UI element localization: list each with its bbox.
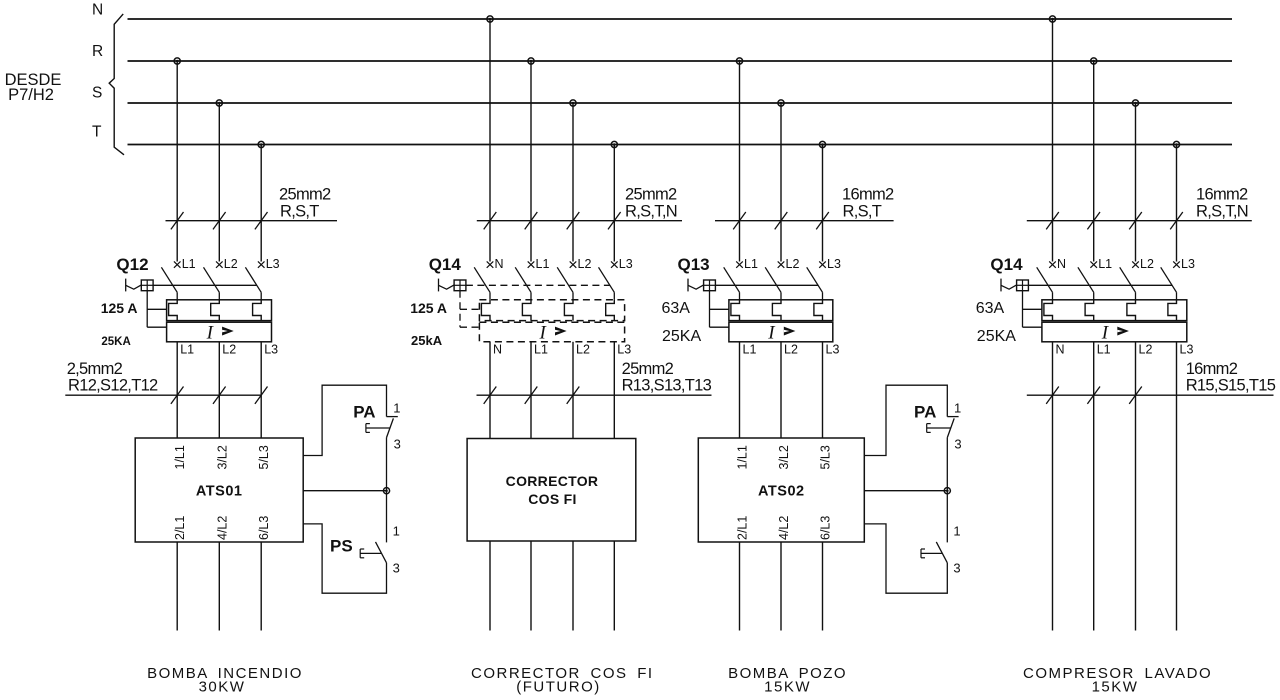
svg-text:1: 1 — [393, 400, 400, 415]
svg-text:16mm2: 16mm2 — [1196, 186, 1248, 204]
wire: bus R tap to Q14 (corrector) (x=531) — [530, 61, 532, 262]
Q14 trip bar — [466, 284, 610, 286]
svg-text:Q14: Q14 — [990, 255, 1023, 274]
wire: upper contact to node — [386, 438, 388, 491]
cable designation 2,5mm2 R12,S12,T12 (Q12 control) — [65, 360, 267, 404]
svg-text:2/L1: 2/L1 — [173, 516, 187, 540]
Q13 pole L1: terminal, blade, thermal element — [736, 261, 743, 267]
svg-text:ATS01: ATS01 — [196, 484, 243, 500]
svg-text:R: R — [92, 43, 103, 60]
Q14 operating handle — [438, 279, 440, 292]
Q14 pole L2: terminal, blade, thermal element — [570, 261, 577, 267]
svg-text:25mm2: 25mm2 — [622, 360, 674, 378]
svg-text:6/L3: 6/L3 — [819, 516, 833, 540]
wire: bus S tap to Q12 (x=219) — [218, 103, 220, 262]
cable designation 25mm2 R13,S13,T13 — [477, 360, 712, 404]
svg-text:5/L3: 5/L3 — [819, 445, 833, 469]
Q13 pole L2: terminal, blade, thermal element — [778, 261, 785, 267]
svg-text:R,S,T,N: R,S,T,N — [1196, 203, 1248, 221]
svg-text:3: 3 — [953, 561, 960, 576]
junction: bus N / Q14 (corrector) — [487, 16, 493, 22]
svg-text:L3: L3 — [617, 343, 631, 357]
label DESDE P7/H2 (incoming feeder) — [5, 71, 62, 104]
wire: Q12 output to ATS01 (x=177) — [176, 342, 178, 438]
svg-text:(FUTURO): (FUTURO) — [516, 679, 600, 696]
wire: corrector box output (x=614) — [613, 541, 615, 631]
svg-text:L3: L3 — [1180, 343, 1194, 357]
svg-text:L3: L3 — [826, 343, 840, 357]
wire: bus T tap to Q14 (corrector) (x=614) — [613, 145, 615, 262]
wire: Q14 output to corrector box (x=490) — [489, 342, 491, 439]
junction: bus S / Q12 — [216, 100, 222, 106]
Q12 pole L2: terminal, blade, thermal element — [216, 261, 223, 267]
wire: bus T tap to Q14 (compresor) (x=1176) — [1176, 145, 1178, 262]
svg-text:L3: L3 — [1181, 257, 1195, 271]
wire: ATS02 output (x=781) — [780, 542, 782, 631]
wire: ATS02 box to node — [864, 490, 947, 492]
Q14 operating handle — [1000, 279, 1002, 292]
Q14 thermal unit box — [479, 300, 624, 321]
svg-text:125 A: 125 A — [101, 300, 138, 316]
junction: bus R / Q13 — [736, 58, 742, 64]
svg-text:P7/H2: P7/H2 — [8, 86, 54, 104]
Q13 pole L3: terminal, blade, thermal element — [819, 261, 826, 267]
svg-text:1/L1: 1/L1 — [173, 445, 187, 469]
svg-text:125 A: 125 A — [410, 300, 447, 316]
load label BOMBA POZO 15KW — [728, 665, 847, 696]
svg-text:R,S,T: R,S,T — [280, 203, 319, 221]
Q13 trip linkage — [709, 291, 711, 328]
wire: corrector box output (x=531) — [530, 541, 532, 631]
svg-text:R12,S12,T12: R12,S12,T12 — [68, 377, 158, 395]
wire: ATS01 output (x=177) — [176, 542, 178, 631]
svg-text:PA: PA — [353, 403, 375, 422]
svg-text:25kA: 25kA — [411, 333, 443, 348]
bus entry bracket — [109, 14, 124, 155]
pressure switch contacts at ATS02 — [864, 385, 961, 593]
contact PA (upper) — [947, 416, 958, 418]
wire: bus T tap to Q12 (x=261) — [260, 145, 262, 262]
box ATS02 — [698, 438, 864, 542]
svg-text:Q14: Q14 — [429, 255, 462, 274]
wire: Q13 output to ATS02 (x=781) — [780, 342, 782, 438]
svg-text:R15,S15,T15: R15,S15,T15 — [1186, 377, 1276, 395]
svg-text:2/L1: 2/L1 — [736, 516, 750, 540]
svg-text:5/L3: 5/L3 — [257, 445, 271, 469]
circuit breaker Q14 — [976, 255, 1195, 356]
svg-text:L3: L3 — [266, 257, 280, 271]
Q14 pole L3: terminal, blade, thermal element — [1173, 261, 1180, 267]
junction: bus R / Q12 — [174, 58, 180, 64]
svg-text:16mm2: 16mm2 — [842, 186, 894, 204]
svg-text:63A: 63A — [976, 300, 1005, 317]
svg-text:15KW: 15KW — [764, 679, 811, 696]
circuit breaker Q13 — [662, 255, 841, 356]
wire: corrector box output (x=490) — [489, 541, 491, 631]
Q12 trip linkage — [146, 291, 148, 328]
svg-text:PA: PA — [914, 403, 936, 422]
Q14 trip linkage — [459, 291, 461, 328]
wire: node to lower contact — [946, 491, 948, 543]
wire: bus S tap to Q13 (x=781) — [780, 103, 782, 262]
svg-text:L3: L3 — [827, 257, 841, 271]
wire: ATS01 output (x=219) — [218, 542, 220, 631]
svg-text:15KW: 15KW — [1092, 679, 1139, 696]
Q14 pole L1: terminal, blade, thermal element — [1090, 261, 1097, 267]
svg-text:Q13: Q13 — [678, 255, 710, 274]
wire: bus S tap to Q14 (corrector) (x=573) — [572, 103, 574, 262]
Q14 pole L1: terminal, blade, thermal element — [528, 261, 535, 267]
load label COMPRESOR LAVADO 15KW — [1023, 665, 1212, 696]
junction: bus T / Q14 (corrector) — [611, 141, 617, 147]
cable designation 25mm2 R,S,T (feeder Q12) — [166, 186, 338, 230]
svg-text:4/L2: 4/L2 — [777, 516, 791, 540]
wire: Q12 output to ATS01 (x=261) — [260, 342, 262, 438]
svg-text:N: N — [1057, 257, 1066, 271]
wire: Q14 output to corrector box (x=531) — [530, 342, 532, 439]
wire: bus R tap to Q12 (x=177) — [176, 61, 178, 262]
load label CORRECTOR COS FI (FUTURO) — [471, 665, 654, 696]
wire: Q14 compresor output to load (x=1176) — [1176, 342, 1178, 631]
wire: lower contact back to ATS02 box — [864, 524, 947, 593]
wire: ATS02 output (x=740) — [739, 542, 741, 631]
svg-text:25KA: 25KA — [662, 328, 701, 345]
svg-text:L2: L2 — [578, 257, 592, 271]
svg-text:L2: L2 — [222, 343, 236, 357]
junction: bus S / Q13 — [778, 100, 784, 106]
junction node — [944, 488, 950, 494]
box CORRECTOR COS FI — [467, 439, 636, 542]
wire: upper contact to node — [946, 438, 948, 491]
cable designation 16mm2 R15,S15,T15 (Q14b load) — [1027, 360, 1276, 404]
svg-text:25mm2: 25mm2 — [625, 186, 677, 204]
Q14 thermal unit box — [1042, 300, 1187, 321]
wire: node to lower contact — [386, 491, 388, 543]
Q12 thermal unit box — [167, 300, 272, 321]
svg-text:6/L3: 6/L3 — [257, 516, 271, 540]
svg-text:T: T — [92, 124, 102, 141]
Q14 trip bar — [1028, 284, 1172, 286]
svg-text:L1: L1 — [182, 257, 196, 271]
junction: bus N / Q14 (compresor) — [1049, 16, 1055, 22]
wire: ATS02 output (x=822) — [822, 542, 824, 631]
svg-text:L2: L2 — [784, 343, 798, 357]
contact E (lower) — [936, 542, 947, 563]
wire: ATS01 output (x=261) — [260, 542, 262, 631]
Q14 trip linkage — [1022, 291, 1024, 328]
svg-text:L1: L1 — [744, 257, 758, 271]
svg-text:L3: L3 — [264, 343, 278, 357]
Q14 magnetic trip box I> — [1042, 322, 1187, 342]
wire: Q12 output to ATS01 (x=219) — [218, 342, 220, 438]
Q13 operating handle — [687, 279, 689, 292]
svg-text:3/L2: 3/L2 — [777, 445, 791, 469]
Q13 trip bar — [715, 284, 818, 286]
load label BOMBA INCENDIO 30KW — [147, 665, 303, 696]
svg-text:3/L2: 3/L2 — [215, 445, 229, 469]
Q14 pole L2: terminal, blade, thermal element — [1132, 261, 1139, 267]
wire: ATS02 box to upper contact — [864, 385, 947, 455]
svg-text:COS FI: COS FI — [528, 491, 576, 507]
wire: corrector box output (x=573) — [572, 541, 574, 631]
svg-text:25KA: 25KA — [101, 336, 130, 348]
junction: bus R / Q14 (corrector) — [528, 58, 534, 64]
svg-text:L2: L2 — [786, 257, 800, 271]
Q12 operating handle — [125, 279, 127, 292]
wire: lower contact back to ATS01 box — [303, 524, 386, 593]
bus N — [92, 2, 1232, 19]
svg-text:30KW: 30KW — [199, 679, 246, 696]
svg-text:N: N — [493, 343, 502, 357]
Q14 magnetic trip box I> — [479, 322, 624, 342]
svg-text:3: 3 — [954, 437, 961, 452]
svg-text:63A: 63A — [662, 300, 691, 317]
svg-text:L1: L1 — [536, 257, 550, 271]
Q13 magnetic trip box I> — [729, 322, 833, 342]
junction: bus T / Q12 — [258, 141, 264, 147]
wire: bus N tap to Q14 (compresor) (x=1052) — [1052, 19, 1054, 262]
svg-text:N: N — [495, 257, 504, 271]
contact PS (lower) — [376, 542, 387, 563]
Q12 pole L1: terminal, blade, thermal element — [174, 261, 181, 267]
wire: Q14 compresor output to load (x=1136) — [1135, 342, 1137, 631]
svg-text:25mm2: 25mm2 — [279, 186, 331, 204]
junction: bus R / Q14 (compresor) — [1091, 58, 1097, 64]
wire: bus R tap to Q13 (x=740) — [739, 61, 741, 262]
wire: bus S tap to Q14 (compresor) (x=1136) — [1135, 103, 1137, 262]
svg-text:L2: L2 — [1139, 343, 1153, 357]
wire: Q14 output to corrector box (x=614) — [613, 342, 615, 439]
wire: Q14 output to corrector box (x=573) — [572, 342, 574, 439]
svg-text:R13,S13,T13: R13,S13,T13 — [622, 377, 712, 395]
Q12 magnetic trip box I> — [167, 322, 272, 342]
junction: bus T / Q14 (compresor) — [1173, 141, 1179, 147]
svg-text:1: 1 — [953, 524, 960, 539]
bus S — [92, 84, 1232, 103]
svg-text:L1: L1 — [743, 343, 757, 357]
junction: bus T / Q13 — [819, 141, 825, 147]
wire: bus T tap to Q13 (x=822) — [822, 145, 824, 262]
cable designation 25mm2 R,S,T,N (feeder Q14 future) — [477, 186, 682, 230]
svg-text:3: 3 — [393, 561, 400, 576]
Q12 trip bar — [153, 284, 257, 286]
Q12 pole L3: terminal, blade, thermal element — [258, 261, 265, 267]
svg-text:S: S — [92, 84, 102, 101]
svg-text:1/L1: 1/L1 — [736, 445, 750, 469]
circuit breaker Q12 — [101, 255, 280, 356]
Q14 pole L3: terminal, blade, thermal element — [611, 261, 618, 267]
Q13 thermal unit box — [729, 300, 833, 321]
svg-text:R,S,T: R,S,T — [843, 203, 882, 221]
svg-text:R,S,T,N: R,S,T,N — [625, 203, 677, 221]
wire: bus N tap to Q14 (corrector) (x=490) — [489, 19, 491, 262]
svg-text:N: N — [92, 2, 103, 19]
svg-text:L1: L1 — [1098, 257, 1112, 271]
wire: Q14 compresor output to load (x=1094) — [1093, 342, 1095, 631]
box ATS01 — [135, 438, 303, 542]
svg-text:L3: L3 — [619, 257, 633, 271]
wire: ATS01 box to node — [303, 490, 386, 492]
wire: Q14 compresor output to load (x=1052) — [1052, 342, 1054, 631]
svg-text:ATS02: ATS02 — [758, 484, 805, 500]
junction: bus S / Q14 (compresor) — [1132, 100, 1138, 106]
junction: bus S / Q14 (corrector) — [570, 100, 576, 106]
svg-text:PS: PS — [330, 537, 353, 556]
wire: Q13 output to ATS02 (x=822) — [822, 342, 824, 438]
svg-text:2,5mm2: 2,5mm2 — [67, 360, 123, 378]
wire: ATS01 box to upper contact — [303, 385, 386, 455]
svg-text:CORRECTOR: CORRECTOR — [506, 473, 599, 489]
wire: Q13 output to ATS02 (x=740) — [739, 342, 741, 438]
svg-text:L1: L1 — [534, 343, 548, 357]
svg-text:L2: L2 — [576, 343, 590, 357]
Q14 pole N: terminal, blade, thermal element — [487, 261, 494, 267]
bus T — [92, 124, 1232, 145]
svg-text:Q12: Q12 — [116, 255, 148, 274]
cable designation 16mm2 R,S,T,N (feeder Q14b) — [1027, 186, 1252, 230]
svg-text:16mm2: 16mm2 — [1186, 360, 1238, 378]
bus R — [92, 43, 1232, 61]
contact PA (upper) — [387, 416, 398, 418]
svg-text:L1: L1 — [1097, 343, 1111, 357]
svg-text:N: N — [1056, 343, 1065, 357]
svg-text:4/L2: 4/L2 — [215, 516, 229, 540]
svg-text:L2: L2 — [224, 257, 238, 271]
svg-text:3: 3 — [394, 437, 401, 452]
pressure switch contacts at ATS01 — [303, 385, 401, 593]
svg-text:1: 1 — [954, 400, 961, 415]
wire: bus R tap to Q14 (compresor) (x=1094) — [1093, 61, 1095, 262]
junction node — [383, 488, 389, 494]
svg-text:25KA: 25KA — [977, 328, 1016, 345]
svg-text:1: 1 — [393, 524, 400, 539]
circuit breaker Q14 — [410, 255, 633, 356]
svg-text:L2: L2 — [1140, 257, 1154, 271]
cable designation 16mm2 R,S,T (feeder Q13) — [715, 186, 894, 230]
svg-text:L1: L1 — [180, 343, 194, 357]
Q14 pole N: terminal, blade, thermal element — [1049, 261, 1056, 267]
